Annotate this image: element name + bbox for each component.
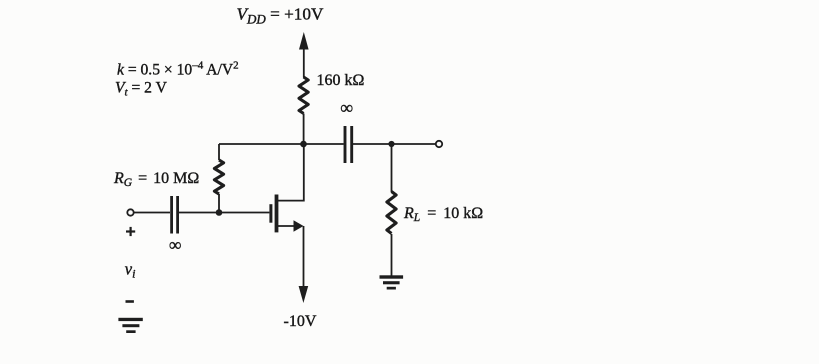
svg-text:-10V: -10V xyxy=(284,313,317,330)
transistor Q1 (NMOS) xyxy=(271,144,304,232)
ground (input source) xyxy=(118,318,142,333)
wire resistor bottom to node A xyxy=(303,114,305,145)
svg-text:RL = 10 kΩ: RL = 10 kΩ xyxy=(403,205,483,224)
label - (vi polarity) xyxy=(126,300,134,303)
wire RL to ground xyxy=(391,234,393,276)
wire C2 to output terminal xyxy=(353,143,436,145)
resistor RG (with connecting stubs) xyxy=(214,144,223,213)
svg-text:VDD = +10V: VDD = +10V xyxy=(237,5,324,27)
wire C1 to gate xyxy=(179,212,269,214)
ground (output) xyxy=(380,275,404,289)
node C (gate node) xyxy=(216,209,223,216)
svg-text:∞: ∞ xyxy=(169,235,181,255)
svg-text:k = 0.5 × 10–4 A/V2: k = 0.5 × 10–4 A/V2 xyxy=(117,60,239,79)
svg-text:∞: ∞ xyxy=(340,98,353,118)
resistor 160 kOhm xyxy=(299,77,308,114)
input terminal xyxy=(127,209,133,215)
label + (vi polarity) xyxy=(126,227,135,236)
node A (drain node) xyxy=(300,141,307,148)
wire node B down to RL xyxy=(391,144,393,192)
resistor RL xyxy=(387,192,396,234)
svg-text:160 kΩ: 160 kΩ xyxy=(317,72,365,89)
output terminal xyxy=(436,141,442,147)
VSS supply arrow (-10V) xyxy=(299,226,309,303)
svg-text:Vt = 2 V: Vt = 2 V xyxy=(115,80,168,99)
wire top horizontal (RG corner to output capacitor) xyxy=(219,143,344,145)
node B (output node) xyxy=(388,141,394,147)
wire input terminal to C1 xyxy=(134,212,170,214)
svg-text:vi: vi xyxy=(125,260,136,281)
capacitor C1 (input, infinity) xyxy=(172,196,178,234)
svg-text:RG = 10 MΩ: RG = 10 MΩ xyxy=(113,170,199,189)
capacitor C2 (output, infinity) xyxy=(345,126,352,163)
VDD supply arrow xyxy=(299,32,309,78)
